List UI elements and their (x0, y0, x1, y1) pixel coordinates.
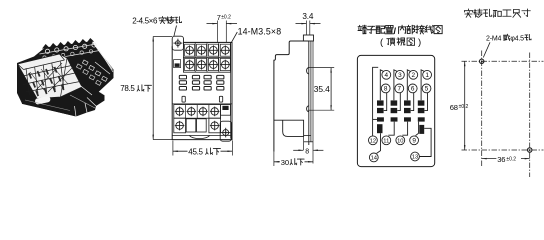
terminal 14 (369, 153, 378, 162)
dimension 35.4 hook spacing (308, 68, 334, 111)
wire terminal 10 (402, 122, 407, 136)
mounting ear bottom-right (220, 121, 231, 141)
svg-text:5: 5 (425, 86, 429, 93)
dimension 78.5 max height (120, 37, 172, 140)
svg-text:/: / (394, 26, 397, 36)
relay pin sockets (377, 100, 384, 105)
wire terminal 14 to coil pin (377, 133, 381, 153)
label 14-M3.5x8 screws (231, 27, 281, 43)
svg-text:10: 10 (397, 138, 403, 144)
svg-text:8: 8 (305, 149, 309, 156)
svg-text:12: 12 (370, 138, 376, 144)
svg-text:30: 30 (281, 158, 289, 167)
wire terminal 13 to coil pin (420, 128, 432, 156)
svg-text:8: 8 (384, 86, 388, 93)
coil pin sockets (377, 124, 383, 133)
dimension 7 +/-0.2 terminal pitch (207, 13, 238, 42)
svg-text:7: 7 (398, 86, 402, 93)
relay pin holes grid (179, 75, 224, 102)
svg-text:±0.2: ±0.2 (506, 156, 516, 162)
dimension 30 max depth (274, 152, 313, 167)
svg-text:): ) (418, 37, 421, 48)
terminals 1-4 (382, 70, 391, 79)
svg-text:78.5: 78.5 (120, 84, 135, 93)
subtitle: top view (380, 37, 421, 48)
wire terminal 12 riser (373, 67, 379, 136)
leader line to mounting ear (174, 26, 177, 37)
bottom terminal block (terminals 9-14) (172, 104, 232, 133)
svg-text:4: 4 (385, 72, 389, 79)
wires from terminals 1-4 to NC pins (380, 70, 383, 100)
svg-text:1: 1 (425, 72, 429, 79)
svg-text:11: 11 (383, 138, 389, 144)
mounting hole bottom-right (528, 148, 532, 152)
terminals 9-12 (369, 136, 378, 145)
dimension 3.4 rail tab (296, 12, 321, 35)
front view: mounting ear top-left (172, 36, 183, 50)
release slot on left wall (174, 60, 181, 68)
terminals 5-8 (381, 84, 390, 93)
label 2-4.5x6 mounting hole (132, 16, 181, 25)
dimension 36 +/-0.2 (482, 158, 530, 160)
front view body outline (172, 42, 232, 139)
wires from terminals 5-8 to NO pins (384, 93, 387, 111)
svg-text:9: 9 (412, 138, 416, 145)
terminal diagram border (357, 55, 434, 166)
terminal 13 (411, 152, 420, 161)
svg-text:36: 36 (497, 155, 505, 164)
top terminal block (terminals 1-8) (183, 42, 230, 72)
svg-text:2-4.5×6: 2-4.5×6 (132, 17, 158, 26)
svg-text:2: 2 (412, 72, 416, 79)
centerlines (462, 60, 544, 62)
svg-text:45.5: 45.5 (188, 147, 203, 156)
svg-text:13: 13 (412, 155, 418, 161)
dimension 45.5 max width (173, 141, 233, 157)
side view profile (274, 35, 314, 164)
label 2-M4 or 4.5 dia holes (486, 34, 531, 42)
wire terminal 11 (388, 122, 394, 136)
dimension 8 foot depth (293, 149, 323, 156)
svg-text:2-M4: 2-M4 (486, 36, 501, 43)
svg-text:35.4: 35.4 (314, 84, 330, 94)
leader to top hole (483, 42, 490, 57)
title: mounting hole dimensions (464, 9, 530, 17)
svg-text:±0.2: ±0.2 (459, 104, 469, 110)
dimension 68 +/-0.2 (464, 61, 466, 150)
isometric view of relay socket (17, 38, 114, 117)
svg-text:14: 14 (371, 155, 378, 161)
wire terminal 9 (416, 122, 419, 136)
svg-text:14-M3.5×8: 14-M3.5×8 (238, 27, 282, 37)
svg-text:±0.2: ±0.2 (221, 14, 231, 20)
svg-text:φ4.5: φ4.5 (510, 36, 524, 43)
svg-text:6: 6 (411, 86, 415, 93)
svg-text:68: 68 (450, 103, 458, 112)
svg-text:3.4: 3.4 (302, 12, 313, 21)
mounting hole top-left (480, 59, 484, 63)
svg-text:3: 3 (398, 72, 402, 79)
title: terminal arrangement / internal connections (358, 25, 442, 36)
